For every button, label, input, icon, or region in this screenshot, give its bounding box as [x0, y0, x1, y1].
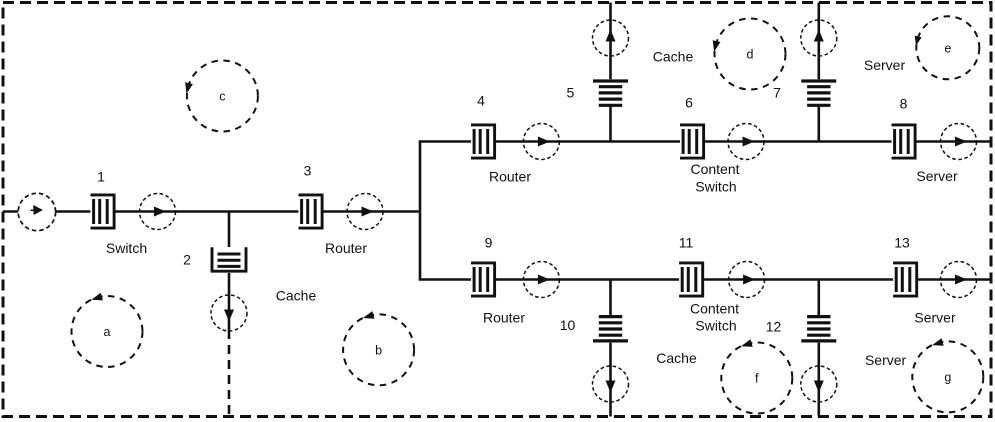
wire: queue12 drop	[817, 280, 820, 417]
svg-text:13: 13	[894, 235, 910, 251]
queue 6 (Content Switch top)	[680, 124, 705, 160]
arrow in circle below queue 2	[224, 310, 234, 322]
svg-text:2: 2	[183, 252, 191, 268]
svg-text:Cache: Cache	[656, 350, 697, 366]
queue 7 (Cache riser right)	[801, 79, 837, 106]
class circle f	[721, 339, 792, 413]
svg-text:Content: Content	[690, 301, 739, 317]
station circle below queue 10	[593, 366, 629, 402]
svg-text:1: 1	[97, 169, 105, 185]
queue 1 (Switch)	[91, 194, 116, 230]
svg-text:12: 12	[766, 319, 782, 335]
svg-text:5: 5	[567, 85, 575, 101]
arrow in circle after queue 8	[955, 137, 967, 147]
svg-text:7: 7	[773, 85, 781, 101]
svg-text:Router: Router	[483, 310, 525, 326]
svg-text:8: 8	[900, 96, 908, 112]
svg-text:Cache: Cache	[276, 288, 317, 304]
svg-text:Server: Server	[916, 168, 958, 184]
arrow in circle after queue 13	[955, 275, 967, 285]
queue 4 (Router, top branch)	[471, 124, 496, 160]
queue 12 (Cache drop right)	[801, 316, 837, 343]
class circle g	[912, 338, 983, 412]
svg-text:11: 11	[679, 235, 694, 251]
arrow in circle above queue 5	[606, 30, 616, 42]
queue 9 (Router bottom)	[471, 262, 496, 298]
arrow in circle after queue 6	[743, 137, 755, 147]
class circle c	[185, 61, 258, 132]
queue 13 (Server bottom)	[893, 262, 918, 298]
arrow in circle after queue 3	[362, 207, 374, 217]
station circle above queue 5	[593, 20, 629, 56]
arrow in circle below queue 12	[814, 381, 824, 393]
wire: vertical splitter	[419, 142, 422, 280]
svg-text:g: g	[944, 370, 951, 384]
svg-text:4: 4	[477, 93, 485, 109]
station circle after queue 8	[941, 124, 977, 160]
station circle after queue 13	[941, 262, 977, 298]
arrow in circle below queue 10	[606, 381, 616, 393]
svg-text:f: f	[755, 372, 759, 386]
station circle after queue 6	[728, 124, 764, 160]
station circle below queue 2	[211, 295, 247, 331]
class circle a	[72, 293, 143, 367]
svg-text:Switch: Switch	[695, 318, 736, 334]
svg-text:c: c	[219, 90, 225, 104]
queue 11 (Content Switch bottom)	[679, 262, 704, 298]
queue 10 (Cache drop)	[593, 316, 629, 343]
svg-text:Router: Router	[489, 169, 531, 185]
svg-text:d: d	[747, 48, 754, 62]
class circle b	[343, 311, 414, 385]
svg-text:Server: Server	[914, 310, 956, 326]
wire: queue7 riser	[817, 3, 820, 142]
source circle	[18, 193, 55, 230]
station circle after queue 9	[523, 262, 559, 298]
station circle after queue 1	[140, 194, 176, 230]
station circle after queue 3	[347, 194, 383, 230]
wire: top branch	[419, 140, 991, 143]
svg-text:b: b	[375, 343, 382, 357]
svg-text:e: e	[944, 41, 951, 55]
svg-text:Router: Router	[325, 240, 367, 256]
wire: cache 2 dashed continuation	[228, 330, 231, 417]
arrow in circle after queue 11	[743, 275, 755, 285]
arrow in circle above queue 7	[814, 30, 824, 42]
wire: cache 2 drop line	[228, 212, 231, 331]
station circle below queue 12	[801, 366, 837, 402]
class circle d	[713, 19, 786, 90]
wire: left main line	[3, 210, 420, 213]
queue 3 (Router)	[299, 194, 324, 230]
wire: queue5 riser	[609, 3, 612, 142]
svg-text:10: 10	[560, 317, 576, 333]
svg-text:Switch: Switch	[695, 179, 736, 195]
queue 8 (Server top)	[892, 124, 917, 160]
svg-text:Cache: Cache	[653, 49, 694, 65]
wire: bottom branch	[419, 278, 991, 281]
svg-text:9: 9	[485, 235, 493, 251]
svg-text:3: 3	[304, 163, 312, 179]
queue 2 (Cache, open top)	[211, 247, 248, 273]
svg-text:6: 6	[685, 95, 693, 111]
svg-text:Server: Server	[865, 352, 907, 368]
wire: queue10 drop	[609, 280, 612, 417]
svg-text:Content: Content	[690, 161, 739, 177]
station circle after queue 4	[523, 124, 559, 160]
arrow in circle after queue 4	[538, 137, 550, 147]
svg-text:a: a	[104, 325, 111, 339]
arrow in circle after queue 1	[154, 207, 166, 217]
class circle e	[915, 16, 980, 79]
station circle above queue 7	[801, 20, 837, 56]
station circle after queue 11	[729, 262, 765, 298]
arrow in circle after queue 9	[538, 275, 550, 285]
queue 5 (Cache riser)	[593, 79, 629, 106]
svg-text:Server: Server	[864, 57, 906, 73]
svg-text:Switch: Switch	[106, 240, 147, 256]
